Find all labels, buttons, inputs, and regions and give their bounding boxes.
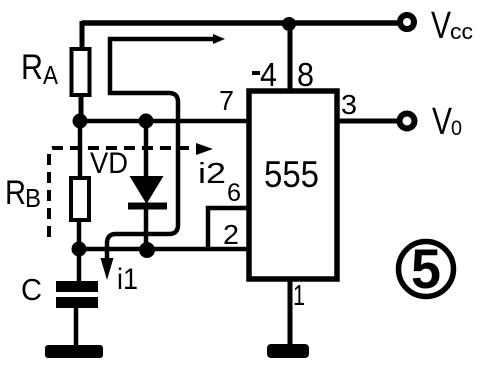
node junction dot diode top — [139, 114, 154, 129]
terminal Vcc — [400, 15, 414, 29]
svg-text:4: 4 — [260, 56, 277, 93]
wire bottom rail pins 2-6 node — [78, 247, 250, 252]
diode VD — [128, 121, 167, 251]
figure number circled 5 — [399, 237, 454, 300]
svg-text:A: A — [43, 60, 59, 90]
label RA — [21, 48, 59, 90]
svg-text:2: 2 — [223, 219, 239, 250]
pin label 4 — [252, 56, 277, 93]
svg-text:V: V — [431, 5, 452, 47]
wire pin 8 — [288, 23, 293, 91]
svg-text:8: 8 — [297, 56, 314, 93]
current path i1 solid annotation curve — [101, 34, 226, 280]
resistor RB — [71, 178, 89, 220]
wire left rail low — [77, 219, 82, 283]
wire left rail mid — [78, 121, 83, 180]
wire RA top — [80, 21, 85, 51]
wire RA bottom — [79, 95, 84, 123]
ground left — [45, 345, 103, 358]
capacitor C top plate — [56, 281, 98, 292]
ground right — [267, 344, 309, 358]
wire pin 7 — [78, 119, 250, 124]
svg-text:C: C — [21, 272, 42, 307]
node junction dot C top — [72, 242, 87, 257]
svg-text:V: V — [432, 101, 453, 143]
label Vcc — [431, 5, 473, 47]
svg-text:1: 1 — [293, 280, 305, 312]
node junction dot diode bottom — [139, 242, 155, 258]
svg-text:7: 7 — [219, 85, 234, 116]
wire pin 6 branch — [208, 208, 250, 251]
svg-text:6: 6 — [227, 179, 241, 207]
svg-text:0: 0 — [451, 117, 462, 140]
wire pin 3 — [337, 119, 397, 124]
svg-text:VD: VD — [90, 147, 128, 180]
node junction dot top rail — [282, 17, 296, 31]
svg-text:i2: i2 — [198, 158, 226, 190]
label V0 — [432, 101, 462, 143]
resistor RA — [72, 49, 90, 95]
svg-text:B: B — [25, 183, 41, 213]
label RB — [5, 174, 41, 213]
svg-text:R: R — [5, 174, 26, 212]
wire pin 1 — [288, 279, 293, 346]
op-amp U1 IC 555 box — [249, 91, 337, 279]
wire C bottom — [74, 307, 79, 346]
svg-text:3: 3 — [341, 89, 357, 120]
svg-text:R: R — [21, 48, 43, 87]
node A junction dot left — [73, 114, 88, 129]
capacitor C bottom plate — [56, 297, 98, 308]
current path i2 dashed annotation curve — [49, 143, 213, 237]
svg-text:cc: cc — [450, 19, 473, 44]
wire top Vcc rail — [82, 20, 398, 26]
terminal V0 — [400, 114, 415, 129]
svg-text:i1: i1 — [117, 263, 138, 296]
svg-text:555: 555 — [264, 154, 319, 195]
svg-text:5: 5 — [411, 237, 441, 300]
